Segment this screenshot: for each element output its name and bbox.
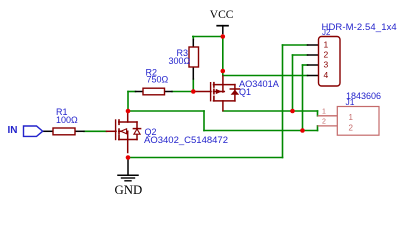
svg-text:300Ω: 300Ω bbox=[169, 56, 191, 66]
svg-text:J1: J1 bbox=[346, 97, 355, 107]
svg-text:J2: J2 bbox=[322, 28, 331, 37]
svg-text:1: 1 bbox=[324, 40, 329, 50]
svg-text:3: 3 bbox=[324, 60, 329, 70]
svg-text:1: 1 bbox=[349, 113, 354, 122]
svg-text:4: 4 bbox=[324, 70, 329, 80]
svg-text:2: 2 bbox=[324, 50, 329, 60]
svg-text:750Ω: 750Ω bbox=[147, 75, 169, 85]
svg-text:VCC: VCC bbox=[210, 9, 234, 21]
svg-text:AO3402_C5148472: AO3402_C5148472 bbox=[144, 135, 228, 146]
svg-text:IN: IN bbox=[8, 125, 18, 136]
svg-text:2: 2 bbox=[322, 119, 326, 126]
svg-text:HDR-M-2.54_1x4: HDR-M-2.54_1x4 bbox=[322, 22, 397, 33]
svg-text:100Ω: 100Ω bbox=[56, 115, 78, 125]
svg-text:2: 2 bbox=[349, 124, 354, 133]
svg-text:GND: GND bbox=[115, 183, 143, 197]
svg-text:1: 1 bbox=[322, 108, 326, 115]
svg-text:Q1: Q1 bbox=[239, 87, 251, 97]
